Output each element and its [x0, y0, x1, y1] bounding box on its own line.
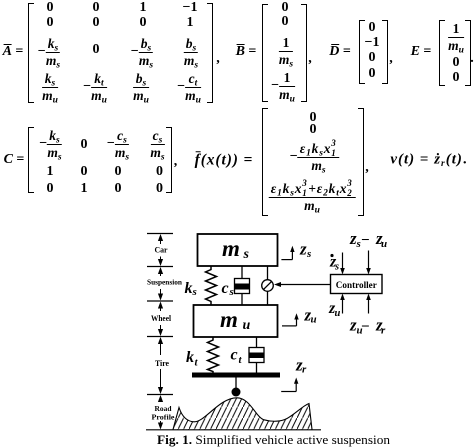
- vector D close bracket: [382, 20, 388, 84]
- vector f open bracket: [262, 108, 268, 216]
- node z_r marker: [281, 378, 298, 392]
- car dimension arrows: [158, 234, 163, 266]
- label Tire: [155, 359, 169, 368]
- ruler tick 3: [147, 300, 173, 302]
- vector E close bracket: [465, 20, 471, 86]
- matrix A close bracket: [207, 3, 213, 103]
- svg-text:Fig. 1. Simplified vehicle act: Fig. 1. Simplified vehicle active suspen…: [157, 432, 391, 447]
- label z_s - z_u: [349, 229, 387, 250]
- label C =: [4, 153, 25, 167]
- svg-text:s: s: [229, 286, 234, 298]
- svg-text:Profile: Profile: [152, 413, 176, 422]
- label k_t: [186, 349, 199, 369]
- vector D open bracket: [359, 20, 365, 84]
- svg-text:Car: Car: [155, 246, 168, 255]
- road profile surface: [173, 398, 312, 430]
- label E =: [411, 45, 432, 59]
- spring k_t: [208, 337, 219, 373]
- wheel dimension arrows: [158, 302, 163, 337]
- svg-text:t: t: [195, 357, 199, 369]
- svg-text:−: −: [361, 232, 370, 248]
- svg-text:s: s: [334, 262, 339, 273]
- vector E open bracket: [439, 20, 445, 86]
- label Car: [155, 246, 168, 255]
- controller box: [331, 275, 383, 294]
- label z_r: [295, 356, 307, 376]
- caption: [157, 432, 391, 447]
- ground baseline: [146, 429, 321, 431]
- svg-text:z: z: [299, 240, 307, 259]
- tire dimension arrows: [158, 337, 163, 394]
- ruler tick 1 (car top): [147, 233, 173, 235]
- ruler tick 5: [147, 394, 173, 396]
- svg-text:c: c: [222, 280, 229, 297]
- damper c_t: [249, 337, 264, 373]
- input arrow z_s minus z_u: [366, 251, 371, 275]
- svg-text:m: m: [222, 236, 240, 261]
- label v(t) = zdot_r(t): [390, 153, 467, 168]
- svg-text:s: s: [306, 248, 311, 260]
- svg-text:−: −: [361, 319, 370, 335]
- matrix C close bracket: [166, 127, 172, 193]
- svg-text:s: s: [192, 286, 197, 298]
- actuator U1: [262, 266, 274, 305]
- svg-text:c: c: [231, 347, 238, 364]
- svg-text:k: k: [185, 280, 193, 297]
- label f-bar(x(t)) =: [195, 152, 254, 168]
- A row1: [47, 1, 54, 15]
- matrix A open bracket: [28, 3, 34, 103]
- label z_u: [304, 306, 317, 326]
- vector f close bracket: [358, 108, 364, 216]
- label c_t: [231, 347, 243, 367]
- A row2: [47, 16, 54, 30]
- svg-text:u: u: [335, 308, 341, 319]
- label z_u (controller input): [328, 300, 341, 319]
- input arrow z_u: [340, 294, 345, 314]
- C row2: [47, 165, 54, 179]
- road contact bar: [192, 373, 280, 378]
- mass m_s box: [198, 234, 278, 266]
- label Wheel: [151, 314, 172, 323]
- A row3: [38, 37, 60, 67]
- label z_u - z_r: [349, 316, 386, 337]
- svg-text:u: u: [243, 318, 251, 333]
- svg-text:u: u: [381, 238, 387, 250]
- svg-text:u: u: [311, 314, 317, 326]
- svg-text:r: r: [381, 325, 386, 337]
- svg-text:Tire: Tire: [155, 359, 169, 368]
- svg-text:Controller: Controller: [336, 281, 378, 291]
- svg-text:t: t: [239, 354, 243, 366]
- C row1: [39, 129, 61, 159]
- label Road Profile: [152, 404, 176, 422]
- svg-text:Suspension: Suspension: [147, 278, 183, 287]
- svg-text:Wheel: Wheel: [151, 314, 172, 323]
- label z_s: [299, 240, 311, 261]
- matrix C open bracket: [28, 127, 34, 193]
- C row3: [47, 182, 54, 196]
- label A-bar =: [3, 45, 24, 59]
- vector B open bracket: [262, 4, 268, 102]
- A row4: [42, 72, 58, 102]
- svg-text:s: s: [243, 247, 250, 262]
- svg-text:s: s: [356, 238, 361, 250]
- label B-bar =: [236, 45, 257, 59]
- svg-text:m: m: [220, 307, 238, 332]
- label Suspension: [147, 278, 183, 287]
- svg-text:k: k: [186, 349, 194, 366]
- label c_s: [222, 280, 234, 298]
- road profile dimension arrows: [158, 395, 163, 430]
- spring k_s: [206, 267, 217, 305]
- input arrow zdot_s: [340, 253, 345, 275]
- mass m_u box: [194, 305, 278, 337]
- label D-bar =: [329, 45, 351, 59]
- node z_u marker: [282, 313, 299, 326]
- contact dot: [232, 388, 241, 397]
- vector B close bracket: [301, 4, 307, 102]
- ruler tick 2: [147, 266, 173, 268]
- wire bar to contact dot: [235, 378, 237, 391]
- suspension dimension arrows: [158, 267, 163, 301]
- node z_s marker: [281, 246, 294, 260]
- label zdot_s: [329, 254, 339, 273]
- ruler tick 4: [147, 336, 173, 338]
- label k_s: [185, 280, 197, 298]
- input arrow z_u minus z_r: [366, 294, 371, 314]
- damper c_s: [235, 266, 250, 305]
- svg-text:r: r: [302, 364, 307, 376]
- wire controller to actuator: [274, 282, 331, 287]
